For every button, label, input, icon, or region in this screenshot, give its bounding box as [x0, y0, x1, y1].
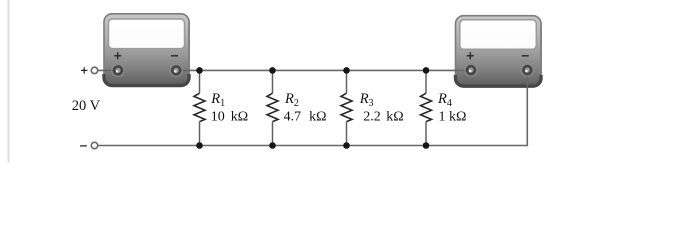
- svg-text:R2: R2: [284, 91, 299, 109]
- junction node: R3 bottom: [343, 142, 350, 149]
- svg-text:10 kΩ: 10 kΩ: [211, 110, 248, 125]
- source terminal: plus (open circle): [91, 67, 97, 73]
- wire: top bus from left meter minus terminal to right meter plus terminal: [177, 69, 472, 71]
- label: source plus sign: [81, 67, 87, 73]
- label: right meter minus polarity mark: [522, 55, 529, 57]
- junction node: R1 top: [196, 67, 203, 74]
- svg-text:1 kΩ: 1 kΩ: [439, 110, 467, 125]
- label: right meter plus polarity mark: [467, 52, 474, 59]
- label: left meter plus polarity mark: [114, 52, 121, 59]
- pin: left meter minus terminal: [170, 64, 183, 77]
- label: left meter minus polarity mark: [171, 55, 178, 57]
- svg-text:R4: R4: [437, 91, 452, 109]
- junction node: R2 bottom: [269, 142, 276, 149]
- svg-text:R3: R3: [359, 91, 374, 109]
- wire: right meter minus terminal down to bottom bus: [526, 70, 528, 146]
- svg-text:R1: R1: [210, 91, 225, 109]
- source terminal: minus (open circle): [91, 142, 97, 148]
- decorative page edge line (left margin): [8, 0, 10, 162]
- junction node: R1 bottom: [196, 142, 203, 149]
- svg-text:20 V: 20 V: [72, 98, 101, 114]
- pin: right meter plus terminal: [465, 64, 478, 77]
- junction node: R4 bottom: [423, 142, 430, 149]
- pin: right meter minus terminal: [521, 64, 534, 77]
- resistor R2: [267, 70, 278, 145]
- svg-text:2.2 kΩ: 2.2 kΩ: [363, 110, 403, 125]
- ammeter U1 (left panel meter): [104, 14, 190, 87]
- wire: bottom bus from source minus terminal to lower right corner: [98, 145, 528, 147]
- ammeter U2 (right panel meter): [456, 16, 542, 88]
- resistor R3: [341, 70, 352, 145]
- pin: left meter plus terminal: [112, 64, 125, 77]
- svg-text:4.7 kΩ: 4.7 kΩ: [284, 110, 327, 125]
- resistor R4: [421, 70, 432, 145]
- resistor R1: [194, 70, 205, 145]
- wire: source plus lead to left meter plus terminal: [98, 69, 119, 71]
- junction node: R2 top: [269, 67, 276, 74]
- junction node: R4 top: [423, 67, 430, 74]
- junction node: R3 top: [343, 67, 350, 74]
- label: source minus sign: [80, 145, 87, 147]
